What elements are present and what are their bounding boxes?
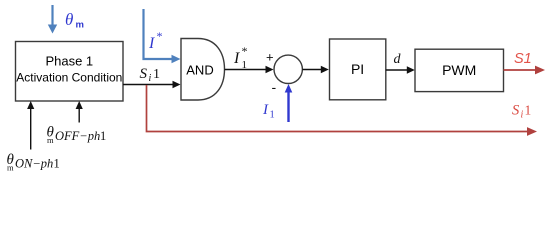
block PWM bbox=[415, 49, 504, 91]
block Phase 1 Activation Condition bbox=[16, 42, 124, 102]
wire theta_OFF-ph1 input (up into box bottom) bbox=[76, 101, 83, 123]
svg-text:θ: θ bbox=[65, 10, 73, 29]
wire Si1 feedback (red, branch down then right) bbox=[147, 85, 538, 136]
svg-text:m: m bbox=[76, 20, 84, 31]
wire I* input (blue, down then right into AND upper input) bbox=[144, 9, 181, 63]
summing junction bbox=[274, 55, 302, 83]
svg-text:1: 1 bbox=[270, 110, 275, 121]
svg-text:I: I bbox=[262, 102, 269, 118]
svg-text:1: 1 bbox=[525, 103, 532, 118]
svg-text:1: 1 bbox=[153, 67, 160, 82]
svg-text:*: * bbox=[242, 44, 248, 58]
svg-text:Phase 1: Phase 1 bbox=[45, 54, 93, 69]
wire Si1: box output to AND gate lower input bbox=[123, 81, 181, 88]
svg-text:1: 1 bbox=[242, 59, 248, 71]
svg-text:S1: S1 bbox=[514, 51, 532, 67]
svg-text:PI: PI bbox=[351, 61, 364, 77]
wire I1 feedback arrow (blue, up into junction) bbox=[285, 84, 293, 122]
svg-text:I: I bbox=[233, 50, 240, 67]
wire S1 output arrow (red) bbox=[504, 66, 546, 75]
wire theta_m input arrow (blue, down) bbox=[48, 5, 57, 34]
block PI bbox=[330, 39, 386, 100]
svg-text:i: i bbox=[521, 110, 524, 121]
svg-text:1: 1 bbox=[100, 129, 106, 143]
node I* label bbox=[148, 29, 163, 52]
node theta_m OFF-ph1 label bbox=[47, 125, 107, 146]
wire PI to PWM, node d bbox=[386, 66, 415, 73]
svg-text:i: i bbox=[149, 73, 152, 84]
svg-text:+: + bbox=[266, 50, 274, 65]
node Si1 label bbox=[140, 66, 161, 84]
wire junction to PI bbox=[302, 66, 328, 73]
wire theta_ON-ph1 input (up into box bottom) bbox=[27, 101, 34, 150]
node theta_m ON-ph1 label bbox=[7, 152, 60, 173]
svg-text:*: * bbox=[157, 29, 163, 43]
svg-text:OFF−ph: OFF−ph bbox=[55, 129, 100, 143]
svg-text:S: S bbox=[140, 66, 148, 82]
svg-text:Activation Condition: Activation Condition bbox=[16, 71, 122, 85]
svg-text:1: 1 bbox=[54, 157, 60, 171]
svg-text:S: S bbox=[512, 103, 520, 119]
svg-text:m: m bbox=[7, 163, 14, 173]
svg-text:-: - bbox=[272, 79, 277, 95]
node Si1 feedback label (red) bbox=[512, 103, 531, 121]
svg-text:d: d bbox=[394, 52, 402, 67]
svg-text:m: m bbox=[47, 135, 54, 145]
svg-text:I: I bbox=[148, 35, 155, 52]
gate AND bbox=[181, 39, 225, 101]
svg-text:AND: AND bbox=[186, 62, 213, 77]
svg-text:ON−ph: ON−ph bbox=[15, 157, 53, 171]
node I1* label bbox=[233, 44, 248, 71]
svg-text:PWM: PWM bbox=[442, 62, 476, 78]
node I1 label bbox=[262, 102, 275, 121]
wire AND output to summing junction bbox=[225, 66, 274, 73]
